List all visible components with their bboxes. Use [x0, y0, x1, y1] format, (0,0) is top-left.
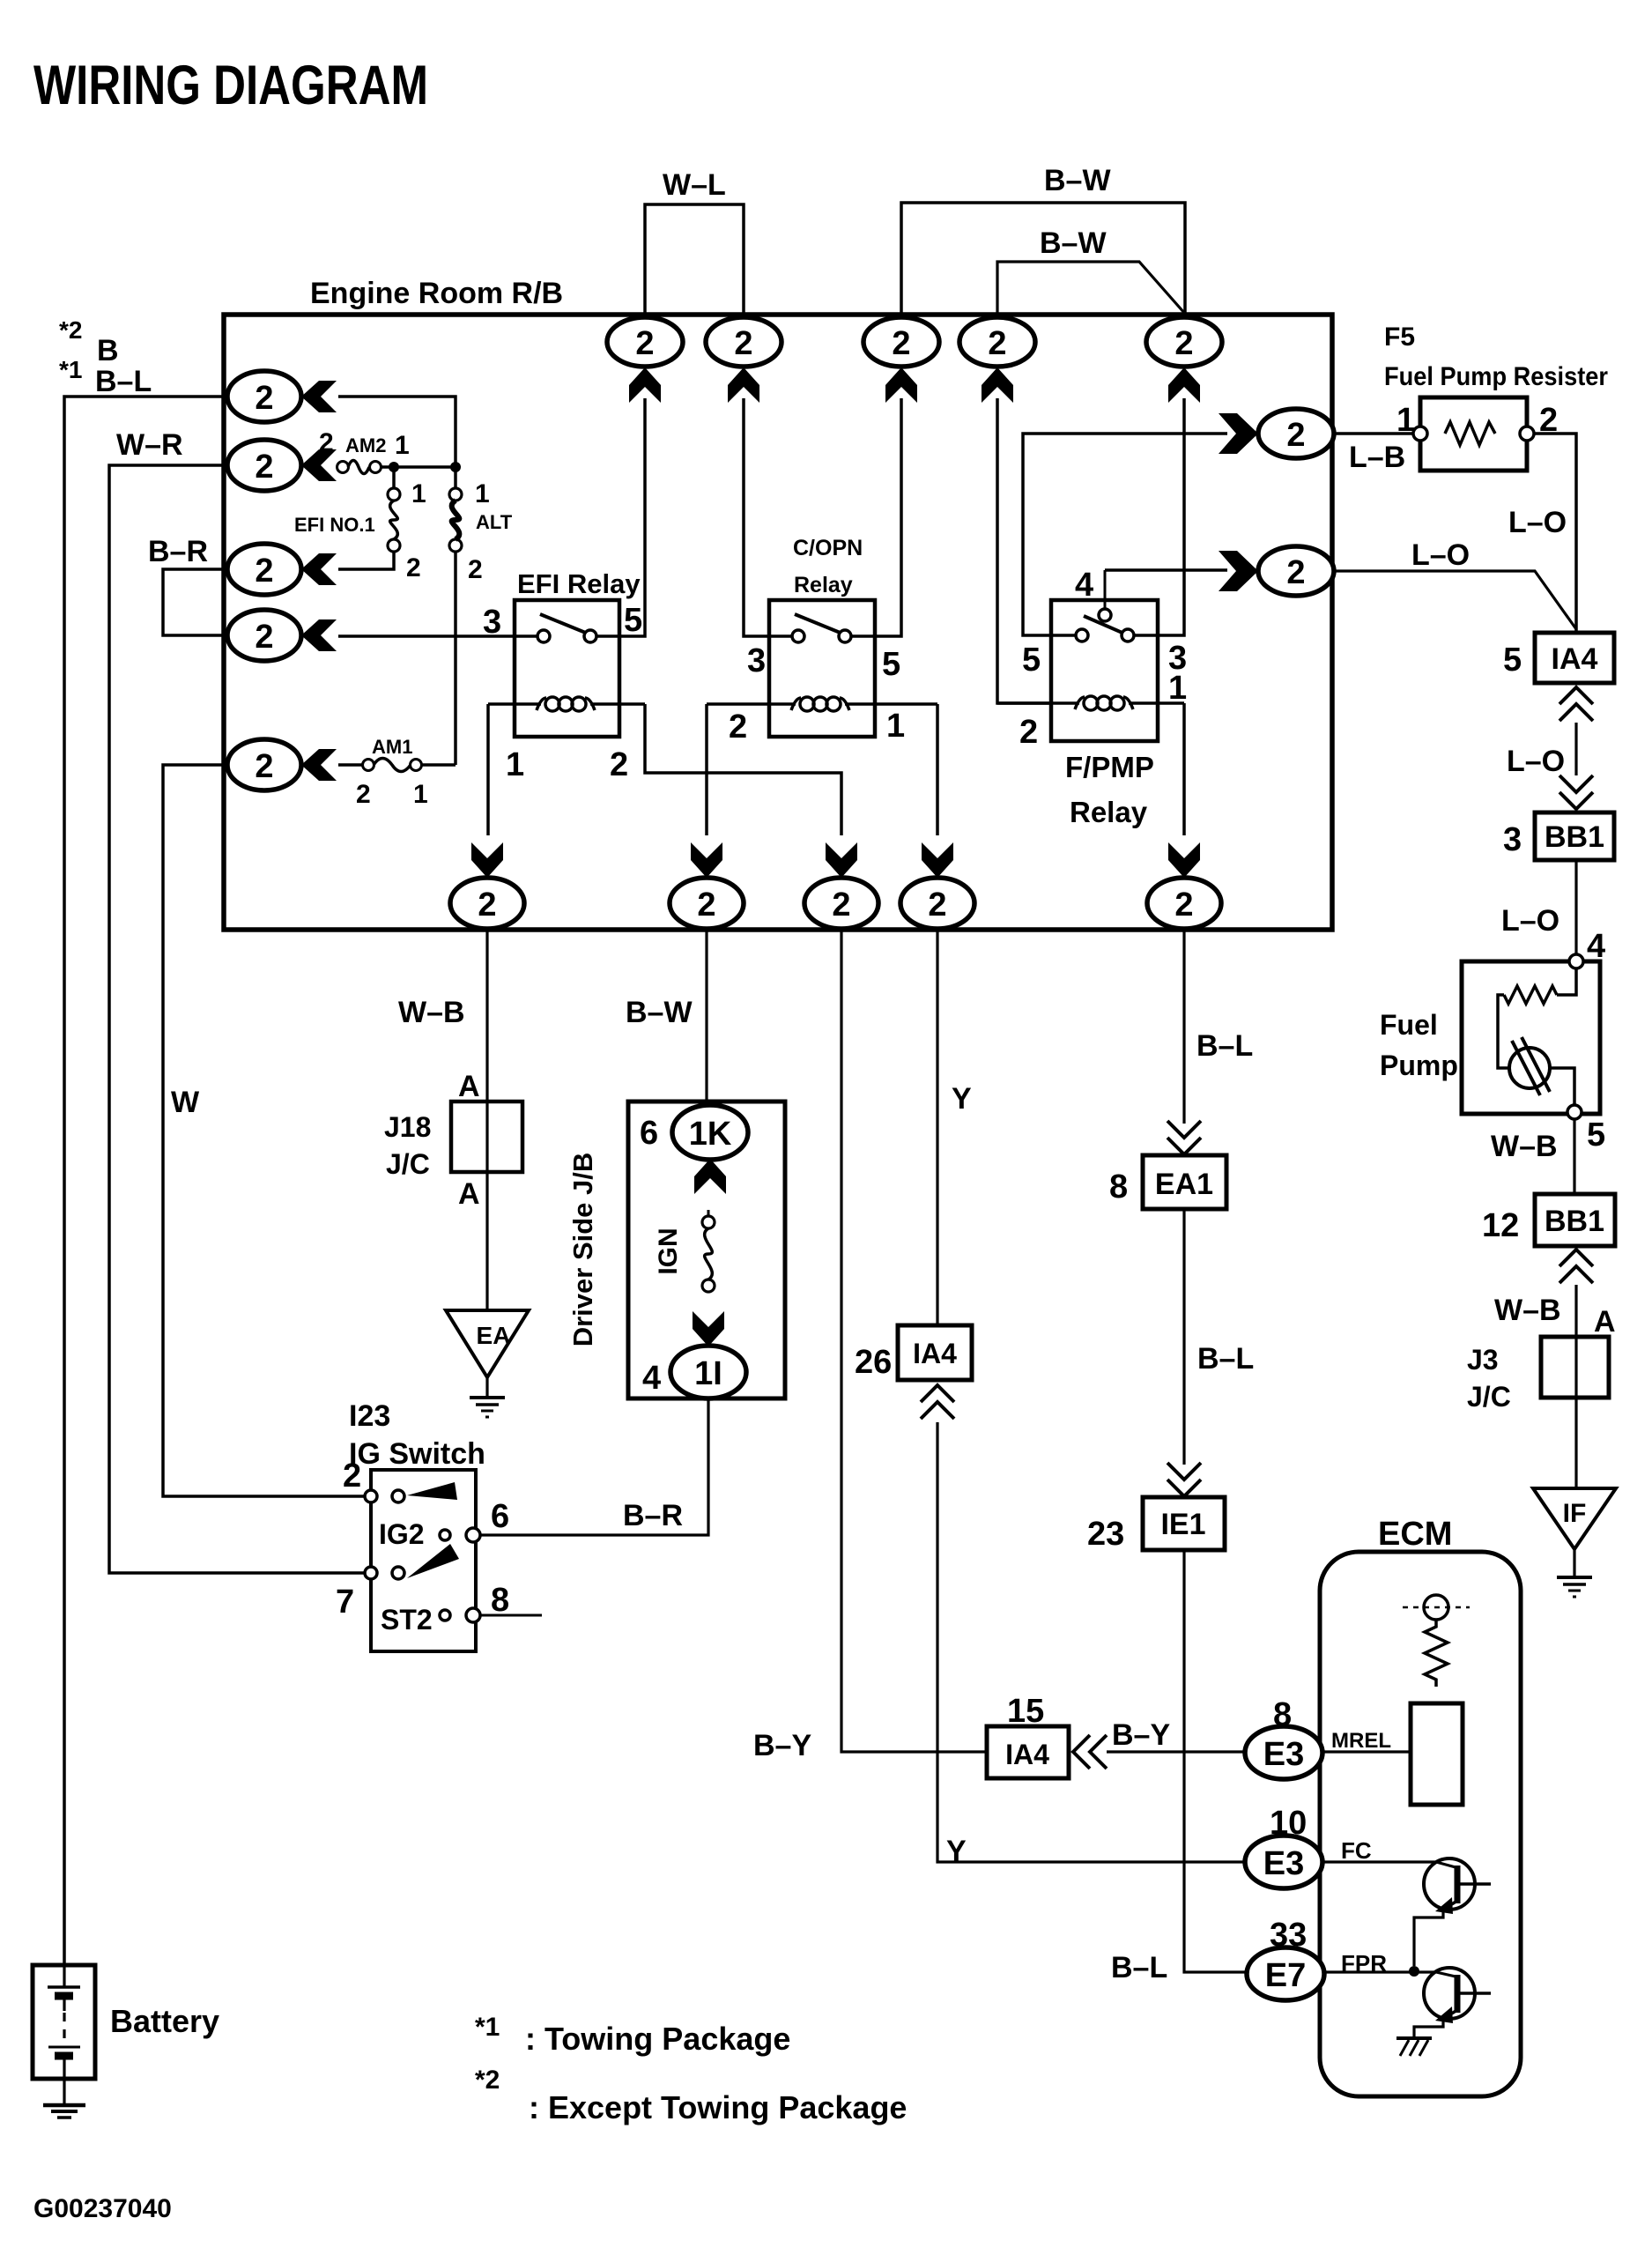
svg-text:2: 2	[1286, 417, 1305, 454]
connector 2 (right, to resister)	[1258, 409, 1334, 458]
svg-text:1K: 1K	[689, 1116, 732, 1153]
wire F/PMP pin5 to connector	[1023, 434, 1227, 635]
pin 4 (fuel pump)	[1569, 954, 1583, 968]
svg-text:A: A	[1594, 1305, 1616, 1339]
svg-text:2: 2	[319, 428, 334, 457]
svg-text:B–L: B–L	[1197, 1342, 1254, 1376]
svg-text:B–R: B–R	[148, 535, 208, 568]
svg-text:*2: *2	[475, 2066, 500, 2095]
wire FPR to transistor Q2	[1324, 1970, 1436, 1973]
svg-text:2: 2	[255, 380, 273, 417]
connector 2 (bottom, W-B)	[450, 878, 524, 929]
wire BB1 to fuel pump	[1574, 860, 1577, 957]
svg-text:B–L: B–L	[1111, 1951, 1167, 1984]
IG switch IG2 contact	[440, 1530, 450, 1540]
fuel pump box	[1462, 961, 1600, 1114]
ground symbol (ECM hatched)	[1396, 2036, 1432, 2040]
wire to AM1 fuse	[338, 763, 363, 767]
svg-text:Fuel Pump Resister: Fuel Pump Resister	[1384, 362, 1608, 391]
Engine Room R/B junction block box	[224, 315, 1332, 930]
svg-text:W–L: W–L	[663, 168, 726, 202]
wire 1I to IG switch	[481, 1398, 708, 1535]
svg-text:B–Y: B–Y	[753, 1729, 811, 1762]
svg-text:2: 2	[892, 325, 910, 362]
svg-text:EFI Relay: EFI Relay	[517, 568, 641, 599]
svg-text:2: 2	[1019, 714, 1038, 751]
node AM2-EFI junction	[389, 462, 399, 472]
svg-text:EA1: EA1	[1155, 1168, 1213, 1201]
connector E3 pin10	[1245, 1836, 1322, 1888]
svg-text:2: 2	[478, 886, 496, 924]
svg-text:ECM: ECM	[1378, 1516, 1452, 1553]
wire B-Y from E3 pin8	[1107, 1750, 1245, 1753]
svg-text:B–W: B–W	[1044, 164, 1111, 197]
connector 2 (bottom, B-W)	[670, 878, 744, 929]
svg-text:1: 1	[1396, 402, 1415, 439]
wire W-R to IG switch pin7	[109, 465, 371, 1573]
svg-text:2: 2	[468, 555, 483, 584]
wire W-L loop (connector 2 to connector 2)	[645, 204, 744, 317]
svg-text:1: 1	[411, 479, 426, 508]
wire IA4 to BB1	[1574, 723, 1577, 775]
svg-text:2: 2	[697, 886, 715, 924]
svg-text:2: 2	[729, 708, 747, 745]
svg-text:F/PMP: F/PMP	[1065, 751, 1154, 783]
svg-text:L–O: L–O	[1411, 538, 1470, 572]
arrow into left connector 3	[301, 553, 337, 585]
wire AM1 to ALT column	[421, 763, 456, 767]
connector 2 (left #4)	[227, 610, 301, 661]
junction block Driver Side J/B box	[628, 1102, 785, 1398]
connector 2 (top, B-W inner)	[959, 317, 1035, 367]
connector 2 (left #5)	[227, 739, 301, 790]
ECM box	[1320, 1552, 1521, 2096]
F/PMP relay switch	[1051, 609, 1158, 642]
ground symbol (battery)	[63, 2079, 65, 2104]
wire from left connector 1 to ALT column	[338, 397, 456, 467]
svg-text:Engine Room R/B: Engine Room R/B	[310, 277, 563, 310]
relay F/PMP box	[1051, 600, 1158, 741]
ECM internal resistor	[1425, 1620, 1448, 1687]
wire connector to resister pin1	[1334, 432, 1415, 435]
svg-text:L–B: L–B	[1349, 441, 1405, 474]
svg-text:2: 2	[1174, 886, 1193, 924]
arrow into top connector 5	[1168, 367, 1200, 403]
wire EFI pin2 to connector drop	[645, 704, 841, 835]
wire F/PMP pin1 drop	[1182, 703, 1186, 835]
svg-text:IA4: IA4	[1005, 1739, 1049, 1770]
svg-text:*1: *1	[475, 2013, 500, 2042]
arrow chevrons into IA4 26	[921, 1385, 954, 1419]
svg-text:Relay: Relay	[1070, 796, 1148, 828]
connector IA4 pin15 box	[987, 1726, 1069, 1778]
wire B-R bracket between left connectors 3 and 4	[163, 569, 227, 635]
transistor Q1	[1414, 1858, 1491, 1966]
svg-text:Relay: Relay	[794, 573, 853, 597]
svg-text:3: 3	[747, 642, 766, 679]
svg-text:1: 1	[506, 746, 524, 783]
arrow into top connector 4	[982, 367, 1013, 403]
resistor F5 box	[1420, 397, 1527, 471]
arrow into left connector 2	[301, 449, 337, 481]
svg-text:2: 2	[832, 886, 850, 924]
wire bottom drop Y	[936, 929, 938, 1325]
svg-text:Fuel: Fuel	[1380, 1009, 1438, 1041]
wire bottom drop W-B	[485, 929, 488, 1310]
fuel pump internal resistor	[1498, 968, 1576, 1068]
fuse IGN	[707, 1210, 710, 1216]
svg-text:1: 1	[395, 431, 410, 460]
pin 5 (fuel pump)	[1567, 1105, 1582, 1119]
arrow chevrons into IA4 15	[1073, 1735, 1107, 1769]
wire B-W inner jumper	[997, 262, 1185, 317]
svg-text:23: 23	[1087, 1516, 1124, 1553]
svg-text:MREL: MREL	[1331, 1729, 1391, 1753]
svg-text:5: 5	[624, 602, 642, 639]
connector 2 (top, W-L left)	[607, 317, 683, 367]
svg-text:E3: E3	[1263, 1736, 1304, 1773]
relay EFI box	[515, 600, 619, 737]
wire bottom drop B-W	[705, 929, 707, 1105]
arrow into bottom connector 3	[826, 842, 857, 878]
svg-text:WIRING DIAGRAM: WIRING DIAGRAM	[33, 55, 428, 116]
svg-text:C/OPN: C/OPN	[793, 536, 863, 560]
wire AM2 to junctions	[381, 465, 456, 469]
arrow chevrons into EA1	[1167, 1121, 1201, 1154]
wire FC to transistor Q1	[1322, 1860, 1436, 1863]
svg-text:W–R: W–R	[116, 428, 183, 462]
svg-text:2: 2	[1174, 325, 1193, 362]
arrow into left connector 1	[301, 381, 337, 412]
connector 2 (left #3, B-R)	[227, 544, 301, 595]
fusible link ALT	[449, 467, 462, 765]
wire from left connector 4 to EFI relay pin3	[338, 634, 537, 638]
ECM internal supply circle	[1424, 1595, 1448, 1620]
svg-text:Driver Side J/B: Driver Side J/B	[567, 1153, 598, 1347]
ECM internal relay block	[1411, 1703, 1463, 1805]
connector 2 (bottom, Y)	[900, 878, 974, 929]
svg-text:J18: J18	[384, 1111, 431, 1143]
svg-text:6: 6	[640, 1115, 658, 1152]
svg-text:B–W: B–W	[626, 996, 693, 1029]
svg-text:*1: *1	[59, 356, 82, 383]
wire F/PMP relay pin3 riser	[1158, 398, 1184, 635]
battery box	[33, 1965, 95, 2079]
F/PMP pin4 wire to connector	[1105, 570, 1227, 609]
IG switch pin7 contact	[365, 1567, 377, 1579]
svg-text:FC: FC	[1341, 1837, 1372, 1864]
wire MREL	[1322, 1750, 1411, 1753]
ground IF triangle	[1533, 1488, 1616, 1549]
EFI relay switch	[515, 614, 619, 642]
arrow chevrons into BB1	[1559, 775, 1593, 809]
connector 2 (bottom, to IA4 15)	[804, 878, 878, 929]
connector 2 (left #2, W-R)	[227, 440, 301, 491]
svg-text:IG2: IG2	[379, 1518, 425, 1550]
svg-text:E3: E3	[1263, 1845, 1304, 1882]
svg-text:W–B: W–B	[398, 996, 465, 1029]
svg-text:B–L: B–L	[1196, 1029, 1253, 1063]
svg-text:L–O: L–O	[1508, 506, 1567, 539]
svg-text:A: A	[458, 1177, 480, 1211]
svg-text:AM1: AM1	[372, 736, 412, 758]
svg-text:1: 1	[1168, 670, 1187, 707]
svg-text:2: 2	[635, 325, 654, 362]
svg-text:2: 2	[1286, 554, 1305, 591]
svg-text:W–B: W–B	[1494, 1294, 1561, 1327]
svg-text:5: 5	[1503, 642, 1522, 679]
connector E7 pin33	[1247, 1947, 1324, 2000]
svg-text:1: 1	[475, 479, 490, 508]
svg-text:IA4: IA4	[1552, 642, 1598, 676]
arrow into bottom connector 2	[691, 842, 722, 878]
svg-text:2: 2	[928, 886, 946, 924]
svg-text:4: 4	[642, 1360, 661, 1397]
arrow chevrons below BB1 12	[1559, 1250, 1593, 1283]
svg-text:: Except Towing Package: : Except Towing Package	[529, 2089, 907, 2125]
transistor Q2	[1414, 1968, 1491, 2038]
arrow into right connector 1	[1219, 413, 1258, 454]
svg-text:5: 5	[882, 646, 900, 683]
svg-text:1I: 1I	[694, 1355, 722, 1392]
svg-text:IE1: IE1	[1160, 1508, 1205, 1541]
fuel pump motor	[1509, 1037, 1574, 1107]
wire C/OPN pin1 drop	[936, 704, 939, 835]
arrow into right connector 2	[1219, 551, 1258, 591]
node AM2-ALT junction	[450, 462, 461, 472]
svg-text:J/C: J/C	[1467, 1381, 1511, 1413]
svg-text:ALT: ALT	[476, 511, 513, 533]
connector 2 (right, L-O)	[1258, 546, 1334, 596]
switch I23 box	[371, 1470, 476, 1651]
svg-text:Y: Y	[952, 1082, 972, 1116]
arrow into left connector 4	[301, 619, 337, 651]
connector 2 (left #1, B)	[227, 371, 301, 422]
svg-text:12: 12	[1482, 1207, 1519, 1244]
connector 2 (top, B-W outer)	[863, 317, 939, 367]
svg-text:2: 2	[255, 748, 273, 785]
junction block J18 J/C	[451, 1102, 522, 1172]
svg-text:2: 2	[356, 780, 371, 809]
svg-text:4: 4	[1075, 567, 1093, 604]
connector IA4 pin26 box	[898, 1325, 972, 1380]
arrow into bottom connector 1	[471, 842, 503, 878]
EFI relay coil	[488, 697, 645, 711]
wire B/B-L from battery	[64, 397, 227, 1965]
wire fuel pump to BB1 12	[1573, 1119, 1575, 1194]
svg-text:2: 2	[343, 1458, 361, 1495]
svg-text:W–B: W–B	[1491, 1130, 1558, 1163]
wire IE1 to E7	[1184, 1550, 1247, 1972]
wire bottom drop B-L	[1182, 929, 1185, 1124]
connector BB1 pin3 box	[1535, 812, 1614, 860]
wire from left connector 3 to EFI NO.1 fuse	[338, 552, 394, 569]
svg-text:BB1: BB1	[1545, 820, 1604, 854]
connector IA4 pin5 box	[1535, 633, 1614, 683]
svg-text:G00237040: G00237040	[33, 2194, 172, 2223]
fuse EFI NO.1	[388, 467, 400, 552]
svg-text:2: 2	[255, 619, 273, 656]
svg-text:J/C: J/C	[386, 1148, 430, 1180]
wire EFI relay pin5 riser	[619, 398, 645, 636]
connector 2 (bottom, B-L)	[1147, 878, 1221, 929]
connector 1I	[670, 1346, 746, 1398]
wire F/PMP relay pin2 riser	[997, 398, 1051, 703]
C/OPN relay switch	[769, 614, 875, 642]
wire L-O from right connector 2 to IA4	[1334, 571, 1576, 629]
wire W to IG switch pin2	[163, 765, 371, 1496]
wire B-W outer loop	[901, 203, 1185, 317]
connector EA1 box	[1143, 1155, 1226, 1209]
svg-text:Battery: Battery	[110, 2003, 219, 2039]
wire C/OPN relay pin3 riser	[744, 398, 769, 636]
wire ST2 stub	[480, 1614, 542, 1617]
arrow into left connector 5	[301, 749, 337, 781]
arrow chevrons into IA4	[1559, 687, 1593, 721]
svg-text:Pump: Pump	[1380, 1050, 1458, 1081]
F/PMP relay coil	[997, 696, 1184, 710]
svg-text:L–O: L–O	[1501, 904, 1559, 938]
svg-text:2: 2	[988, 325, 1006, 362]
connector 2 (top, right)	[1146, 317, 1222, 367]
wire Y to E3 pin10	[937, 1422, 1245, 1862]
svg-text:B–L: B–L	[95, 365, 152, 398]
arrow into top connector 1	[629, 367, 661, 403]
svg-text:8: 8	[491, 1582, 509, 1619]
ground EA triangle	[446, 1310, 529, 1377]
relay C/OPN box	[769, 600, 875, 737]
wire BB1 to J3	[1574, 1285, 1577, 1491]
svg-text:F5: F5	[1384, 323, 1415, 352]
connector BB1 pin12 box	[1535, 1194, 1615, 1246]
arrow into 1I	[693, 1311, 724, 1346]
svg-text:IGN: IGN	[654, 1228, 683, 1274]
svg-text:BB1: BB1	[1545, 1205, 1604, 1238]
arrow into bottom connector 4	[922, 842, 953, 878]
arrow into 1K	[694, 1159, 726, 1194]
wire EA1 to IE1	[1182, 1209, 1185, 1465]
junction block J3 J/C	[1541, 1337, 1609, 1398]
arrow into top connector 3	[885, 367, 917, 403]
battery cells	[48, 1965, 80, 2079]
svg-text:6: 6	[491, 1498, 509, 1535]
svg-text:8: 8	[1109, 1168, 1128, 1205]
svg-text:L–O: L–O	[1507, 745, 1565, 778]
wire C/OPN relay pin5 riser	[875, 398, 901, 636]
ground symbol (EA)	[485, 1377, 488, 1396]
svg-text:ST2: ST2	[381, 1604, 433, 1636]
svg-text:I23: I23	[349, 1399, 390, 1433]
svg-text:: Towing Package: : Towing Package	[525, 2021, 790, 2057]
svg-text:2: 2	[255, 449, 273, 486]
svg-text:3: 3	[1503, 821, 1522, 858]
C/OPN relay coil	[707, 697, 937, 711]
svg-text:EFI NO.1: EFI NO.1	[294, 514, 375, 536]
svg-text:2: 2	[734, 325, 752, 362]
connector IE1 box	[1143, 1497, 1225, 1550]
svg-text:2: 2	[406, 553, 421, 582]
IG switch ST2 contact	[440, 1610, 450, 1621]
svg-text:EA: EA	[477, 1322, 511, 1349]
svg-text:*2: *2	[59, 316, 82, 344]
svg-text:J3: J3	[1467, 1344, 1499, 1376]
pin 1 (resister)	[1413, 427, 1427, 441]
svg-text:AM2: AM2	[345, 434, 386, 456]
svg-text:B–R: B–R	[623, 1499, 683, 1532]
svg-text:26: 26	[855, 1344, 892, 1381]
pin 2 (resister)	[1520, 427, 1534, 441]
svg-text:5: 5	[1587, 1116, 1605, 1153]
svg-text:IG Switch: IG Switch	[349, 1437, 485, 1471]
svg-text:1: 1	[413, 780, 428, 809]
svg-text:1: 1	[886, 708, 905, 745]
fuse AM2	[337, 461, 382, 474]
resistor F5 element	[1445, 422, 1495, 445]
svg-text:5: 5	[1022, 642, 1041, 679]
svg-text:3: 3	[483, 604, 501, 641]
ground symbol (IF)	[1573, 1549, 1575, 1576]
IG switch pin2 contact	[365, 1490, 377, 1502]
svg-text:W: W	[171, 1086, 200, 1119]
wire C/OPN pin2 drop	[705, 704, 708, 835]
arrow chevrons into IE1	[1167, 1463, 1201, 1496]
arrow into top connector 2	[728, 367, 759, 403]
arrow into bottom connector 5	[1168, 842, 1200, 878]
svg-text:B–Y: B–Y	[1112, 1718, 1170, 1752]
svg-text:E7: E7	[1265, 1957, 1306, 1994]
wire EFI pin1 drop	[486, 704, 490, 835]
svg-text:2: 2	[255, 553, 273, 590]
svg-text:IA4: IA4	[913, 1338, 957, 1369]
node FPR junction	[1409, 1966, 1419, 1977]
wire to AM2 fuse	[337, 465, 338, 469]
fuse AM1	[363, 759, 422, 772]
svg-text:2: 2	[610, 746, 628, 783]
connector 2 (top, W-L right)	[706, 317, 782, 367]
connector 1K	[672, 1105, 748, 1160]
connector E3 pin8	[1245, 1726, 1322, 1779]
svg-text:IF: IF	[1563, 1499, 1587, 1528]
svg-text:Y: Y	[946, 1835, 967, 1868]
svg-text:B: B	[97, 334, 119, 367]
wire resister pin2 down to IA4	[1534, 434, 1576, 631]
svg-text:7: 7	[336, 1584, 354, 1621]
wire bottom drop B-Y	[841, 929, 987, 1752]
svg-text:A: A	[458, 1070, 480, 1103]
svg-text:B–W: B–W	[1040, 226, 1107, 260]
